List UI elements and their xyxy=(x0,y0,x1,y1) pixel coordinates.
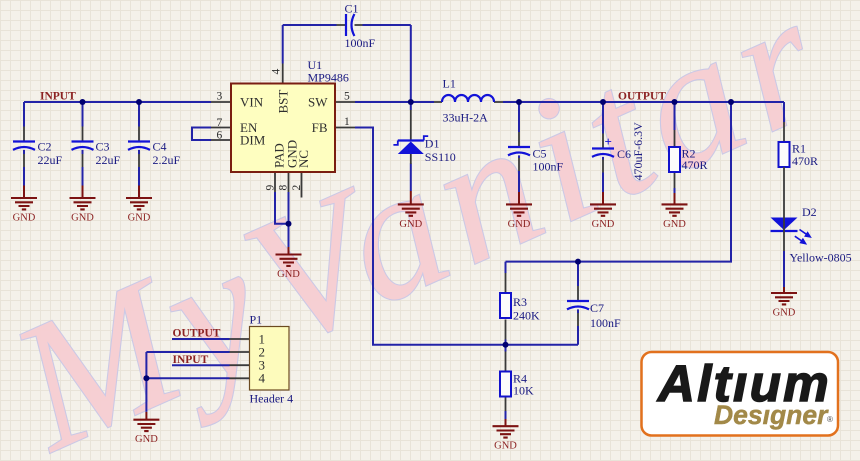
svg-text:C1: C1 xyxy=(345,1,359,15)
svg-text:470uF-6.3V: 470uF-6.3V xyxy=(631,122,645,181)
svg-text:D1: D1 xyxy=(425,137,440,151)
svg-text:22uF: 22uF xyxy=(38,153,63,167)
svg-text:100nF: 100nF xyxy=(533,160,564,174)
svg-text:1: 1 xyxy=(344,116,350,128)
svg-text:4: 4 xyxy=(271,69,283,75)
svg-text:240K: 240K xyxy=(513,309,540,323)
svg-text:DIM: DIM xyxy=(240,132,266,147)
svg-text:NC: NC xyxy=(296,150,311,168)
svg-text:C6: C6 xyxy=(617,147,631,161)
svg-text:P1: P1 xyxy=(250,313,263,327)
svg-text:2: 2 xyxy=(291,185,303,191)
svg-text:100nF: 100nF xyxy=(345,36,376,50)
svg-text:C4: C4 xyxy=(153,139,167,153)
svg-text:INPUT: INPUT xyxy=(173,354,209,366)
svg-text:FB: FB xyxy=(312,120,328,135)
svg-text:470R: 470R xyxy=(682,158,708,172)
svg-text:Header 4: Header 4 xyxy=(250,392,294,406)
svg-text:OUTPUT: OUTPUT xyxy=(173,327,221,339)
svg-text:5: 5 xyxy=(344,91,350,103)
svg-text:+: + xyxy=(605,134,612,149)
svg-text:INPUT: INPUT xyxy=(40,90,76,102)
svg-text:C2: C2 xyxy=(38,139,52,153)
svg-text:4: 4 xyxy=(259,371,266,386)
svg-text:SS110: SS110 xyxy=(425,150,456,164)
svg-text:7: 7 xyxy=(217,117,223,129)
svg-text:C7: C7 xyxy=(590,301,604,315)
svg-text:3: 3 xyxy=(217,91,223,103)
svg-text:33uH-2A: 33uH-2A xyxy=(443,111,489,125)
svg-text:C3: C3 xyxy=(96,139,110,153)
svg-text:VIN: VIN xyxy=(240,94,264,109)
svg-text:R3: R3 xyxy=(513,295,527,309)
svg-text:100nF: 100nF xyxy=(590,316,621,330)
svg-text:6: 6 xyxy=(217,129,223,141)
svg-text:SW: SW xyxy=(308,94,328,109)
svg-text:Yellow-0805: Yellow-0805 xyxy=(790,251,852,265)
svg-text:22uF: 22uF xyxy=(96,153,121,167)
svg-text:10K: 10K xyxy=(513,384,534,398)
svg-text:D2: D2 xyxy=(802,205,817,219)
svg-text:8: 8 xyxy=(278,185,290,191)
svg-text:OUTPUT: OUTPUT xyxy=(618,90,666,102)
svg-text:MP9486: MP9486 xyxy=(308,70,349,84)
svg-text:470R: 470R xyxy=(792,154,818,168)
svg-text:®: ® xyxy=(827,415,833,424)
svg-text:9: 9 xyxy=(265,185,277,191)
svg-text:2.2uF: 2.2uF xyxy=(153,153,181,167)
svg-text:Desıgner: Desıgner xyxy=(714,400,829,430)
svg-text:BST: BST xyxy=(276,90,291,114)
svg-text:C5: C5 xyxy=(533,147,547,161)
svg-text:L1: L1 xyxy=(443,77,456,91)
